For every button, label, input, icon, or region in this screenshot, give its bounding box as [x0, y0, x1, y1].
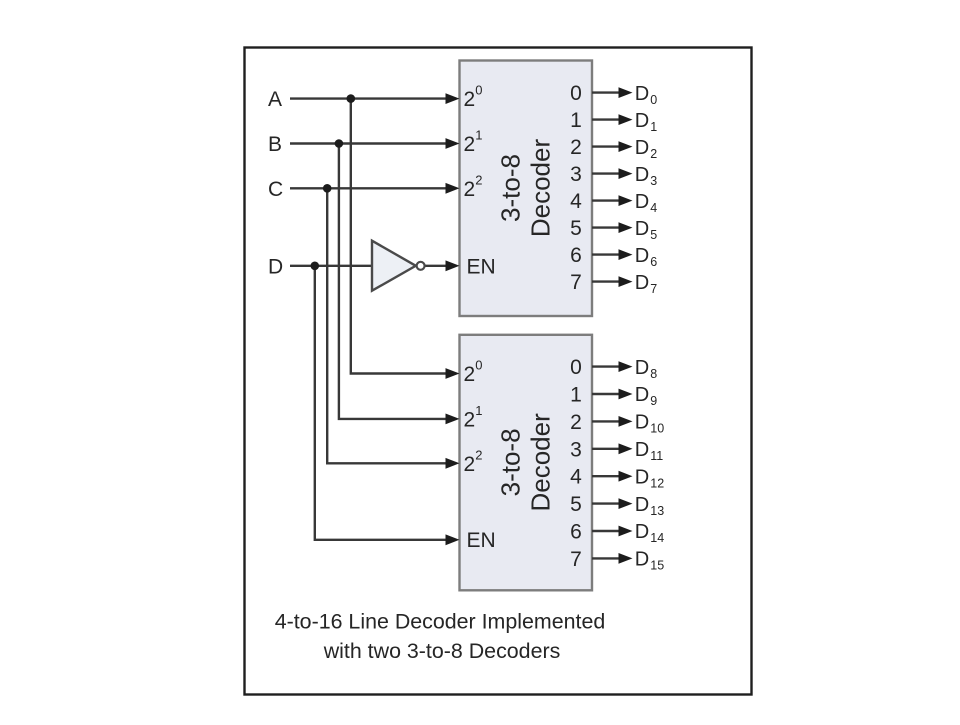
svg-text:6: 6 [570, 244, 582, 267]
svg-text:1: 1 [570, 109, 582, 132]
svg-text:6: 6 [570, 521, 582, 544]
svg-text:EN: EN [467, 529, 496, 552]
svg-text:C: C [268, 178, 283, 201]
svg-text:EN: EN [467, 255, 496, 278]
svg-text:4-to-16 Line Decoder Implement: 4-to-16 Line Decoder Implemented [275, 610, 606, 634]
svg-text:with two 3-to-8 Decoders: with two 3-to-8 Decoders [323, 639, 561, 663]
svg-text:2: 2 [570, 411, 582, 434]
svg-text:0: 0 [570, 356, 582, 379]
svg-text:0: 0 [570, 82, 582, 105]
svg-text:5: 5 [570, 217, 582, 240]
svg-text:1: 1 [570, 384, 582, 407]
svg-text:3-to-8: 3-to-8 [495, 428, 525, 496]
svg-text:7: 7 [570, 548, 582, 571]
svg-text:3-to-8: 3-to-8 [495, 154, 525, 222]
svg-text:Decoder: Decoder [525, 413, 555, 512]
svg-text:5: 5 [570, 493, 582, 516]
svg-text:3: 3 [570, 163, 582, 186]
svg-text:3: 3 [570, 438, 582, 461]
svg-text:Decoder: Decoder [525, 139, 555, 238]
svg-text:B: B [268, 133, 282, 156]
svg-text:A: A [268, 88, 282, 111]
svg-text:2: 2 [570, 136, 582, 159]
svg-text:7: 7 [570, 271, 582, 294]
svg-text:4: 4 [570, 190, 582, 213]
svg-text:4: 4 [570, 466, 582, 489]
svg-text:D: D [268, 255, 283, 278]
